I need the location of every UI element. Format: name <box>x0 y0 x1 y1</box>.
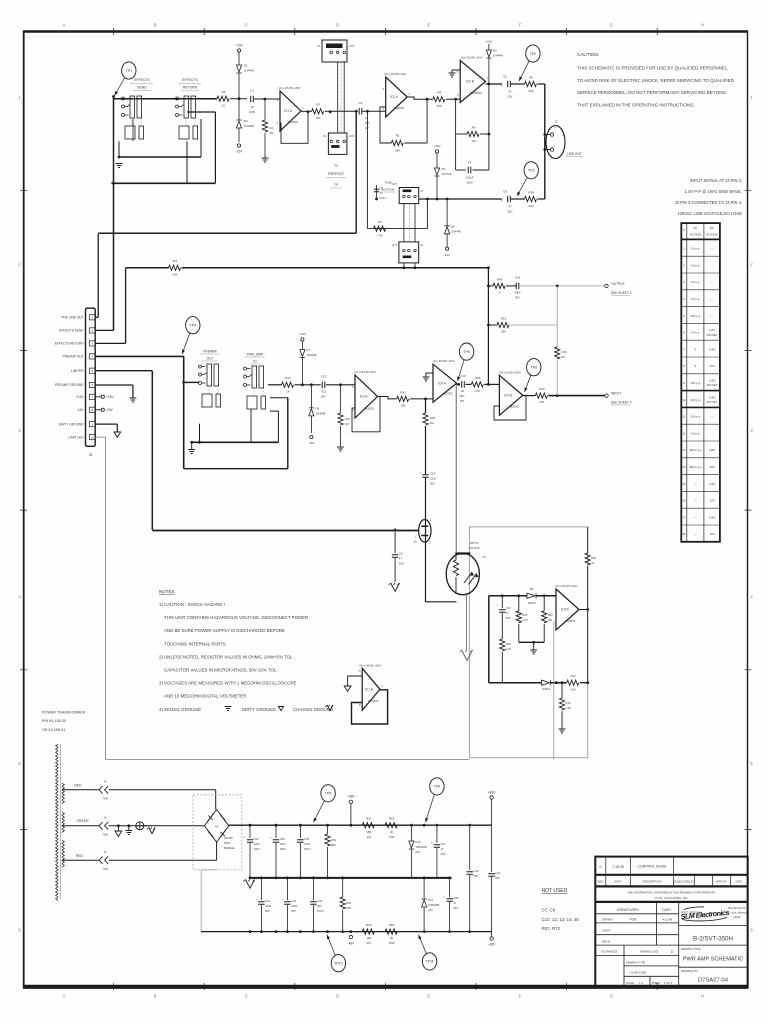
svg-text:C13: C13 <box>321 375 327 379</box>
svg-text:R36: R36 <box>562 350 568 354</box>
svg-text:-15V: -15V <box>236 150 244 154</box>
connector J5 <box>55 308 95 457</box>
svg-text:TP8: TP8 <box>325 792 332 796</box>
test point TP1 <box>122 62 136 79</box>
svg-text:80K: 80K <box>331 843 336 847</box>
svg-text:22K: 22K <box>172 273 177 277</box>
svg-text:D7SA27-04: D7SA27-04 <box>698 978 729 984</box>
diode D8 to -16V <box>308 383 326 445</box>
capacitor C13 <box>321 375 355 399</box>
svg-text:+: + <box>501 84 503 88</box>
svg-text:D9: D9 <box>530 587 534 591</box>
svg-text:DRAWING TYPE: DRAWING TYPE <box>626 961 646 964</box>
svg-text:C15: C15 <box>506 606 511 610</box>
svg-text:E: E <box>427 994 430 999</box>
svg-text:AC: AC <box>693 226 697 230</box>
svg-text:+: + <box>497 603 499 607</box>
svg-text:2200: 2200 <box>254 842 260 846</box>
capacitor C16 <box>457 374 472 403</box>
svg-text:10K: 10K <box>437 104 442 108</box>
svg-text:+: + <box>420 471 422 475</box>
bridge rectifier BR1 <box>193 795 242 870</box>
op-amp IC4B <box>499 370 523 415</box>
svg-text:C1: C1 <box>250 89 254 93</box>
svg-text:B-2/SVT-350H: B-2/SVT-350H <box>693 936 733 943</box>
test point TP11 <box>422 953 436 970</box>
svg-text:33K: 33K <box>501 330 506 334</box>
power transformer T1 <box>56 744 65 900</box>
svg-text:TOUCHING INTERNAL PARTS.: TOUCHING INTERNAL PARTS. <box>164 641 227 646</box>
svg-text:-48V: -48V <box>488 943 496 947</box>
svg-text:15K: 15K <box>571 688 576 692</box>
svg-text:IN: IN <box>317 44 320 48</box>
svg-text:E: E <box>427 23 430 28</box>
svg-text:C: C <box>245 23 248 28</box>
svg-text:—: — <box>711 280 714 284</box>
svg-text:—: — <box>711 247 714 251</box>
svg-text:B: B <box>154 994 157 999</box>
resistor R41 <box>268 376 321 394</box>
notes text block <box>159 589 333 712</box>
svg-text:2.2K: 2.2K <box>522 618 528 622</box>
svg-text:C34: C34 <box>291 899 296 903</box>
svg-text:T2(B): T2(B) <box>384 181 392 185</box>
wire +48V rail bus <box>229 824 492 827</box>
resistor R39 <box>423 413 435 474</box>
svg-text:R4: R4 <box>173 259 177 263</box>
svg-text:FIRST USED ON:: FIRST USED ON: <box>681 911 701 914</box>
svg-text:R28: R28 <box>506 642 511 646</box>
wire opto drive column <box>455 384 457 553</box>
svg-text:R26: R26 <box>548 613 553 617</box>
svg-text:50V: 50V <box>399 562 404 566</box>
svg-text:—: — <box>711 431 714 435</box>
svg-text:1N914: 1N914 <box>527 601 536 605</box>
svg-text:2) UNLESS NOTED, RESISTOR VALU: 2) UNLESS NOTED, RESISTOR VALUES IN OHMS… <box>159 654 294 659</box>
svg-text:DATE:: DATE: <box>662 908 671 912</box>
wire feedback column <box>487 266 490 384</box>
svg-text:P: P <box>683 228 685 232</box>
svg-text:—: — <box>711 314 714 318</box>
resistor R40 <box>523 387 548 404</box>
capacitor C1 <box>249 89 280 115</box>
capacitor C5 <box>501 75 525 99</box>
svg-text:OUT: OUT <box>392 183 398 186</box>
capacitor C28 <box>443 878 458 932</box>
svg-text:1901 Borman Dr.: 1901 Borman Dr. <box>728 907 747 910</box>
svg-text:R25: R25 <box>522 613 527 617</box>
svg-text:PRE/POST: PRE/POST <box>328 172 344 176</box>
svg-text:90: 90 <box>390 936 394 940</box>
effects return jack J7 <box>176 78 202 139</box>
capacitor C35 <box>270 825 286 878</box>
svg-text:5V p-p: 5V p-p <box>691 431 700 435</box>
svg-text:R57, R72: R57, R72 <box>542 926 561 931</box>
test point TP9 <box>430 778 444 795</box>
svg-text:+48V: +48V <box>488 791 496 795</box>
svg-text:0V p-p: 0V p-p <box>691 263 700 267</box>
svg-text:50V: 50V <box>265 909 270 913</box>
svg-text:TP10: TP10 <box>334 962 343 966</box>
svg-text:C26: C26 <box>317 899 322 903</box>
svg-text:SEND: SEND <box>137 86 147 90</box>
svg-text:THIS SCHEMATIC IS PROVIDED FOR: THIS SCHEMATIC IS PROVIDED FOR USE BY QU… <box>577 66 729 71</box>
svg-text:GREEN: GREEN <box>76 819 89 823</box>
svg-text:C19: C19 <box>473 869 478 873</box>
resistor R64 <box>340 878 352 932</box>
svg-text:1M: 1M <box>430 421 435 425</box>
svg-text:+48V: +48V <box>347 795 355 799</box>
svg-text:(A=+16V,B=-16V): (A=+16V,B=-16V) <box>499 370 521 374</box>
svg-text:R2: R2 <box>270 126 274 130</box>
svg-text:NE5532: NE5532 <box>368 699 379 703</box>
svg-text:R5: R5 <box>222 90 226 94</box>
svg-text:St. Louis, Missouri: St. Louis, Missouri <box>727 912 748 915</box>
wire preamp ground pin6 <box>95 385 133 398</box>
resistor R12 <box>488 316 557 333</box>
svg-text:C5: C5 <box>503 75 507 79</box>
resistor R38 <box>525 191 545 209</box>
svg-text:4-12-99: 4-12-99 <box>662 917 673 921</box>
svg-text:NE5532: NE5532 <box>288 120 299 124</box>
wire IC3B output <box>579 608 589 611</box>
svg-text:35V: 35V <box>441 852 446 856</box>
wire effects send pin2 <box>95 329 113 331</box>
resistor R51 <box>585 527 597 610</box>
svg-text:(A=+15V,B=-15V): (A=+15V,B=-15V) <box>461 56 483 60</box>
svg-text:+16V: +16V <box>709 515 716 519</box>
svg-text:14: 14 <box>682 465 686 469</box>
svg-text:C14: C14 <box>430 472 436 476</box>
svg-text:J2: J2 <box>554 120 558 124</box>
svg-text:NP: NP <box>460 399 464 403</box>
svg-text:R40: R40 <box>539 387 545 391</box>
op-amp IC2A <box>383 72 411 117</box>
svg-text:(A=+16V,B=-16V): (A=+16V,B=-16V) <box>354 370 376 374</box>
op-amp IC1A <box>277 86 305 131</box>
svg-text:100V: 100V <box>280 847 286 851</box>
svg-text:+16V: +16V <box>106 395 114 399</box>
svg-text:C4: C4 <box>468 161 472 165</box>
wire jack ground loop <box>184 398 288 469</box>
svg-text:T2: T2 <box>334 164 338 168</box>
svg-text:D6: D6 <box>451 225 455 229</box>
svg-text:+16V: +16V <box>76 395 84 399</box>
svg-text:TO AVOID RISK OF ELECTRIC SHOC: TO AVOID RISK OF ELECTRIC SHOCK, REFER S… <box>577 78 735 83</box>
svg-text:CAPACITOR VALUES IN MICROFARAD: CAPACITOR VALUES IN MICROFARADS, 50V-10%… <box>164 668 278 673</box>
svg-text:IN: IN <box>421 244 424 247</box>
svg-text:2A: 2A <box>413 541 416 544</box>
svg-text:NE5532: NE5532 <box>443 392 454 396</box>
resistor R5 <box>217 90 247 108</box>
test point TP6 <box>527 359 541 376</box>
svg-text:0V p-p: 0V p-p <box>691 297 700 301</box>
svg-text:SIGNATURES:: SIGNATURES: <box>617 908 640 912</box>
svg-text:SCALE: SCALE <box>626 982 635 985</box>
svg-text:180: 180 <box>366 830 371 834</box>
caution note text <box>577 52 735 107</box>
svg-text:50V: 50V <box>430 482 435 486</box>
svg-text:0V p-p: 0V p-p <box>691 247 700 251</box>
ground limiter detector <box>530 650 537 654</box>
wire IC3B noninverting input to LED line <box>554 622 556 759</box>
wire post C2 to switch bus <box>366 110 427 229</box>
svg-text:H: H <box>701 994 704 999</box>
svg-text:TP3: TP3 <box>528 169 535 173</box>
svg-text:100V: 100V <box>249 110 256 114</box>
svg-text:—: — <box>694 532 697 536</box>
svg-text:IC1 A: IC1 A <box>284 109 293 113</box>
svg-text:RETURN: RETURN <box>183 86 198 90</box>
svg-text:47: 47 <box>508 90 512 94</box>
svg-text:G: G <box>610 23 613 28</box>
svg-text:R9: R9 <box>529 76 533 80</box>
zener D13 <box>409 825 427 878</box>
capacitor C19 <box>466 825 478 931</box>
svg-text:SHEET: SHEET <box>652 982 661 985</box>
svg-text:R42: R42 <box>345 417 351 421</box>
capacitor C18 <box>514 276 521 300</box>
svg-text:THIS UNIT CONTAINS HAZARDOUS V: THIS UNIT CONTAINS HAZARDOUS VOLTAGE. DI… <box>164 615 308 620</box>
svg-text:15: 15 <box>682 482 686 486</box>
svg-text:R46: R46 <box>566 701 571 705</box>
connector J4 pin top <box>99 780 216 810</box>
wire limiter line <box>95 371 418 532</box>
svg-text:OPTO: OPTO <box>470 541 479 545</box>
svg-text:2200: 2200 <box>280 842 286 846</box>
power +16V pin7 <box>95 395 114 399</box>
svg-text:50V: 50V <box>506 616 511 620</box>
svg-text:12: 12 <box>682 431 686 435</box>
wire limiter rectifier box <box>489 594 546 682</box>
svg-text:DC: DC <box>710 226 714 230</box>
svg-text:C7, C9: C7, C9 <box>542 908 556 913</box>
svg-text:A: A <box>63 23 66 28</box>
svg-text:C25: C25 <box>304 837 309 841</box>
svg-text:.68: .68 <box>460 389 464 393</box>
op-amp IC1B <box>359 663 383 710</box>
resistor R43 <box>378 390 434 407</box>
svg-text:NOTES: NOTES <box>159 589 175 594</box>
svg-text:TOLERANCES:: TOLERANCES: <box>601 951 619 954</box>
relay T2 top section <box>317 40 354 188</box>
capacitor C6 <box>501 190 525 214</box>
title block <box>595 857 747 987</box>
svg-text:-16V: -16V <box>444 253 450 257</box>
svg-text:C16: C16 <box>460 374 466 378</box>
svg-text:C8: C8 <box>399 552 403 556</box>
test point TP2 <box>526 45 540 62</box>
op-amp IC4A <box>433 359 457 402</box>
svg-text:R64: R64 <box>346 901 352 905</box>
svg-text:+: + <box>244 836 246 840</box>
svg-text:APP'D BY: APP'D BY <box>716 881 727 884</box>
svg-text:10: 10 <box>91 435 95 439</box>
svg-text:D14: D14 <box>428 898 433 902</box>
svg-text:10W: 10W <box>389 941 395 945</box>
svg-text:PCB: PCB <box>630 917 637 921</box>
resistor R4 on effects return line <box>126 259 489 277</box>
connector J2 XLR line out <box>543 120 582 159</box>
svg-text:AND 10 MEGOHM DIGITAL VOLTMETE: AND 10 MEGOHM DIGITAL VOLTMETER. <box>164 694 248 699</box>
svg-text:OFFSET: OFFSET <box>706 400 717 404</box>
svg-text:OUT: OUT <box>392 244 398 247</box>
svg-text:C: C <box>245 994 248 999</box>
svg-text:+15V: +15V <box>235 44 243 48</box>
resistor R25 <box>516 596 528 643</box>
svg-text:J4: J4 <box>104 850 107 854</box>
svg-text:D7: D7 <box>307 348 311 352</box>
svg-text:5K: 5K <box>562 355 566 359</box>
wire IC4B feedback <box>494 395 526 420</box>
svg-text:REL'D: REL'D <box>602 940 610 944</box>
svg-text:R60: R60 <box>366 923 372 927</box>
svg-text:22: 22 <box>365 116 369 120</box>
ground jack loop <box>188 442 195 453</box>
input signal note text <box>675 178 742 216</box>
svg-text:R43: R43 <box>400 390 406 394</box>
svg-text:10W: 10W <box>389 835 395 839</box>
svg-text:D8: D8 <box>316 407 320 411</box>
svg-text:CAUTION:: CAUTION: <box>577 52 599 57</box>
svg-text:—: — <box>694 482 697 486</box>
wire effects loop <box>111 95 217 330</box>
wire secondary green <box>62 819 99 826</box>
svg-text:EFFECTS: EFFECTS <box>182 78 198 82</box>
svg-text:IC3 B: IC3 B <box>561 608 569 612</box>
wire output to sheet 2 <box>520 282 632 296</box>
svg-text:+15V: +15V <box>709 347 716 351</box>
capacitor C32 <box>255 878 271 932</box>
svg-text:A: A <box>63 994 66 999</box>
ground R2 <box>262 158 269 162</box>
voltage table <box>681 223 720 542</box>
svg-text:10V p-p: 10V p-p <box>691 381 701 385</box>
svg-text:—: — <box>711 415 714 419</box>
resistor R63 <box>385 817 397 839</box>
svg-text:50V: 50V <box>321 395 326 399</box>
svg-text:-16V: -16V <box>77 408 85 412</box>
svg-text:R1: R1 <box>396 134 400 138</box>
svg-text:TO: TO <box>483 555 487 559</box>
svg-text:DESCRIPTION: DESCRIPTION <box>642 880 661 884</box>
power -16V pin8 <box>95 408 113 412</box>
svg-text:120VAC LINE VOLTAGE,NO LOAD: 120VAC LINE VOLTAGE,NO LOAD <box>677 211 742 216</box>
test point TP10 <box>331 955 345 972</box>
svg-text:C33: C33 <box>254 837 259 841</box>
ground effects loop <box>116 164 123 168</box>
svg-text:CHK'D: CHK'D <box>602 929 610 933</box>
node pre line out bus <box>95 110 357 317</box>
svg-text:R39: R39 <box>430 416 436 420</box>
svg-text:OUT: OUT <box>349 134 355 138</box>
svg-text:J3 PIN 3 CONNECTED TO J3 PIN 4: J3 PIN 3 CONNECTED TO J3 PIN 4, <box>675 200 742 205</box>
svg-text:(A=+15V,B=-15V): (A=+15V,B=-15V) <box>359 663 381 667</box>
svg-text:+48V: +48V <box>709 448 716 452</box>
svg-text:PREAMP OUT: PREAMP OUT <box>62 355 83 359</box>
svg-text:IN: IN <box>323 134 326 138</box>
ground IC2B + input <box>449 70 461 77</box>
diode D3 <box>485 40 503 85</box>
svg-text:R35: R35 <box>475 376 481 380</box>
diode D6 to -16V <box>444 198 461 257</box>
svg-text:PREAMP: PREAMP <box>203 350 216 354</box>
svg-text:R51: R51 <box>591 556 596 560</box>
test point TP3 <box>524 162 538 179</box>
svg-text:POWER TRANSFORMER: POWER TRANSFORMER <box>42 711 86 715</box>
svg-text:R63: R63 <box>389 817 395 821</box>
svg-text:1:1: 1:1 <box>639 981 643 985</box>
capacitor C34 <box>281 878 297 932</box>
svg-text:11: 11 <box>682 415 685 419</box>
svg-text:300: 300 <box>528 204 533 208</box>
svg-text:+: + <box>255 898 257 902</box>
svg-text:-16V: -16V <box>106 408 114 412</box>
svg-text:25V: 25V <box>508 95 513 99</box>
svg-text:IC2 A: IC2 A <box>390 95 399 99</box>
svg-text:CHASSIS GROUND: CHASSIS GROUND <box>293 707 333 712</box>
svg-text:100V: 100V <box>466 181 473 185</box>
connector J4 pin bottom <box>99 842 217 871</box>
svg-text:TP9: TP9 <box>434 785 441 789</box>
svg-text:DRAWN: DRAWN <box>602 917 612 921</box>
svg-text:R12: R12 <box>501 316 507 320</box>
svg-text:NP: NP <box>365 126 369 130</box>
svg-text:1) CAUTION : SHOCK HAZARD !: 1) CAUTION : SHOCK HAZARD ! <box>159 602 225 607</box>
svg-text:SEE SHEET 2: SEE SHEET 2 <box>611 401 632 405</box>
svg-text:R6: R6 <box>472 126 476 130</box>
power transformer part number text <box>42 711 86 732</box>
wire input to sheet 2 <box>548 392 631 406</box>
test point TP4 <box>186 317 200 334</box>
svg-text:C2: C2 <box>359 101 363 105</box>
opto coupler V1 <box>446 541 486 595</box>
svg-text:DATE:: DATE: <box>736 881 743 884</box>
svg-text:.022: .022 <box>321 390 327 394</box>
resistor R46 <box>559 683 571 729</box>
svg-text:300: 300 <box>528 89 533 93</box>
svg-text:-16V: -16V <box>308 441 314 445</box>
svg-text:2.2K: 2.2K <box>506 647 512 651</box>
svg-text:10V p-p: 10V p-p <box>691 398 701 402</box>
svg-text:-48V: -48V <box>348 942 356 946</box>
svg-text:R3: R3 <box>316 103 320 107</box>
svg-text:OUTPUT: OUTPUT <box>611 282 625 286</box>
svg-text:INPUT SIGNAL AT J3 PIN 2,: INPUT SIGNAL AT J3 PIN 2, <box>690 178 742 183</box>
svg-text:(A=+15V,B=-15V): (A=+15V,B=-15V) <box>278 86 300 90</box>
svg-text:D13: D13 <box>415 840 420 844</box>
not used text <box>542 888 580 931</box>
svg-text:24V: 24V <box>415 850 420 854</box>
svg-text:25V: 25V <box>365 121 370 125</box>
zener D14 <box>422 878 440 932</box>
svg-text:—: — <box>711 263 714 267</box>
svg-text:THE INFORMATION CONTAINED IN T: THE INFORMATION CONTAINED IN THIS DRAWIN… <box>627 891 715 895</box>
svg-text:NE5532: NE5532 <box>364 406 375 410</box>
svg-text:C28: C28 <box>453 896 458 900</box>
svg-text:—: — <box>694 499 697 503</box>
svg-text:-48V: -48V <box>709 465 715 469</box>
svg-text:TB: TB <box>215 825 219 829</box>
resistor R35 <box>471 376 499 393</box>
resistor R28 <box>500 639 512 683</box>
svg-text:100V: 100V <box>304 842 310 846</box>
svg-text:NOT USED: NOT USED <box>542 888 568 894</box>
svg-text:VTL5C3: VTL5C3 <box>469 546 480 550</box>
svg-text:2200: 2200 <box>291 904 297 908</box>
power +16V with diode D7 <box>299 332 317 385</box>
svg-text:R47: R47 <box>571 674 577 678</box>
